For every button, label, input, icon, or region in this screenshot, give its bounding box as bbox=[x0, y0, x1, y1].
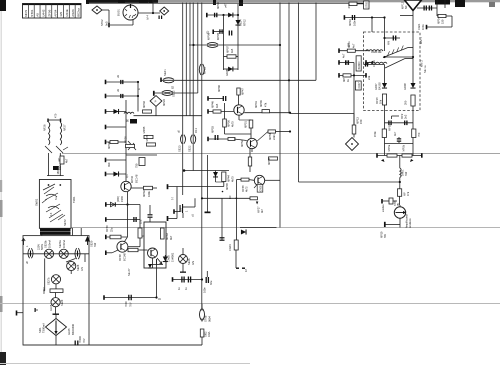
svg-text:MP44: MP44 bbox=[227, 175, 231, 182]
svg-text:SE29: SE29 bbox=[60, 299, 64, 306]
svg-text:1k5: 1k5 bbox=[215, 103, 219, 108]
svg-text:1k5: 1k5 bbox=[230, 48, 234, 53]
svg-text:u9: u9 bbox=[116, 89, 120, 92]
svg-text:NF/S: NF/S bbox=[24, 10, 28, 17]
svg-text:SE30b: SE30b bbox=[44, 240, 48, 248]
svg-text:70000: 70000 bbox=[78, 335, 82, 343]
svg-text:CA04: CA04 bbox=[228, 244, 232, 251]
svg-text:100n: 100n bbox=[353, 20, 357, 26]
svg-text:4k75: 4k75 bbox=[231, 176, 235, 182]
svg-text:GR06: GR06 bbox=[225, 69, 229, 76]
svg-text:SE 1a: SE 1a bbox=[423, 65, 427, 73]
svg-text:SW: SW bbox=[404, 171, 408, 176]
svg-text:0.8A: 0.8A bbox=[207, 331, 211, 337]
svg-text:ZF09: ZF09 bbox=[47, 9, 51, 16]
svg-text:180061: 180061 bbox=[56, 165, 60, 174]
svg-text:RT02: RT02 bbox=[243, 19, 247, 26]
svg-text:1x5: 1x5 bbox=[59, 12, 63, 17]
svg-text:u9: u9 bbox=[116, 75, 120, 78]
svg-text:MP38: MP38 bbox=[118, 254, 122, 261]
svg-text:NETZ: NETZ bbox=[63, 219, 67, 226]
svg-text:MP54: MP54 bbox=[268, 133, 272, 140]
svg-text:MP15: MP15 bbox=[375, 97, 379, 104]
svg-text:(2): (2) bbox=[206, 31, 210, 34]
svg-text:ST05: ST05 bbox=[395, 200, 397, 206]
svg-text:MP13: MP13 bbox=[356, 117, 360, 124]
svg-text:NF26: NF26 bbox=[43, 124, 47, 131]
svg-text:70V: 70V bbox=[82, 338, 86, 343]
svg-text:BA102: BA102 bbox=[378, 82, 382, 90]
svg-text:470: 470 bbox=[347, 4, 351, 9]
svg-text:MP14: MP14 bbox=[437, 17, 441, 24]
svg-text:49: 49 bbox=[158, 297, 161, 301]
svg-text:U44E: U44E bbox=[65, 9, 69, 17]
svg-text:390: 390 bbox=[107, 162, 111, 167]
svg-text:MP39: MP39 bbox=[105, 225, 109, 232]
svg-text:GN02: GN02 bbox=[261, 185, 263, 192]
svg-text:SE30a: SE30a bbox=[58, 240, 62, 248]
svg-text:BC148: BC148 bbox=[123, 253, 127, 261]
svg-text:750: 750 bbox=[417, 132, 421, 137]
svg-text:1n: 1n bbox=[184, 287, 188, 290]
svg-text:470: 470 bbox=[54, 113, 58, 118]
svg-text:2n2: 2n2 bbox=[404, 114, 408, 119]
svg-text:ST02: ST02 bbox=[100, 19, 104, 26]
svg-text:DR01: DR01 bbox=[401, 169, 405, 176]
svg-text:MP2: MP2 bbox=[400, 113, 404, 119]
svg-text:SI02: SI02 bbox=[204, 331, 208, 337]
svg-text:T500mA: T500mA bbox=[42, 323, 46, 333]
svg-text:4k7: 4k7 bbox=[260, 208, 264, 213]
svg-text:MP: MP bbox=[347, 43, 351, 47]
svg-text:R: R bbox=[142, 235, 146, 237]
svg-text:MP29: MP29 bbox=[124, 136, 128, 143]
svg-text:MP23: MP23 bbox=[162, 99, 166, 106]
svg-text:SI01: SI01 bbox=[38, 327, 42, 333]
svg-text:MP04: MP04 bbox=[216, 2, 220, 9]
svg-text:BC: BC bbox=[228, 195, 232, 199]
svg-text:13: 13 bbox=[244, 269, 248, 272]
svg-text:GL05: GL05 bbox=[49, 304, 53, 311]
svg-text:L: L bbox=[25, 245, 29, 247]
svg-text:SW: SW bbox=[93, 242, 97, 247]
svg-text:22u: 22u bbox=[139, 219, 143, 224]
svg-text:22k1: 22k1 bbox=[272, 134, 276, 140]
svg-text:MP49: MP49 bbox=[259, 100, 263, 107]
svg-text:100k: 100k bbox=[147, 191, 151, 197]
svg-text:1n: 1n bbox=[177, 287, 181, 290]
svg-text:32u: 32u bbox=[110, 227, 114, 232]
svg-text:MP: MP bbox=[403, 192, 407, 196]
svg-text:(-): (-) bbox=[170, 197, 174, 200]
svg-text:u47: u47 bbox=[224, 3, 228, 8]
svg-text:MP46: MP46 bbox=[211, 101, 215, 108]
svg-text:0-6: 0-6 bbox=[51, 212, 53, 216]
svg-text:100mA: 100mA bbox=[62, 240, 66, 248]
svg-text:(160): (160) bbox=[116, 196, 120, 202]
svg-text:MP35: MP35 bbox=[241, 185, 245, 192]
svg-text:Endstufe: Endstufe bbox=[409, 218, 412, 228]
svg-text:1: 1 bbox=[185, 210, 189, 212]
svg-text:150: 150 bbox=[359, 119, 363, 124]
svg-text:SW01: SW01 bbox=[35, 198, 39, 206]
svg-text:U442: U442 bbox=[42, 9, 46, 17]
svg-text:MP50: MP50 bbox=[227, 120, 231, 127]
svg-text:A0: A0 bbox=[36, 13, 40, 17]
svg-text:GR08: GR08 bbox=[403, 83, 407, 90]
svg-text:SE27b: SE27b bbox=[47, 277, 51, 285]
svg-text:1k: 1k bbox=[346, 79, 350, 82]
svg-text:47k: 47k bbox=[264, 102, 268, 107]
svg-text:4k75: 4k75 bbox=[245, 186, 249, 192]
svg-text:1N60: 1N60 bbox=[120, 195, 124, 202]
svg-text:MP: MP bbox=[342, 78, 346, 82]
svg-text:4n7: 4n7 bbox=[393, 131, 397, 136]
svg-text:MP42: MP42 bbox=[142, 190, 146, 197]
svg-text:SE22: SE22 bbox=[188, 145, 192, 152]
svg-text:MP34: MP34 bbox=[107, 142, 111, 149]
svg-text:ST01: ST01 bbox=[30, 9, 34, 17]
svg-text:GN: GN bbox=[191, 261, 195, 265]
svg-text:CA07: CA07 bbox=[358, 82, 361, 89]
svg-text:0604: 0604 bbox=[208, 316, 212, 322]
svg-text:ST05: ST05 bbox=[365, 1, 369, 8]
svg-text:M 4: M 4 bbox=[146, 14, 150, 19]
svg-text:220V: 220V bbox=[37, 244, 41, 250]
svg-text:MP30: MP30 bbox=[145, 134, 149, 141]
svg-text:SE28: SE28 bbox=[76, 264, 80, 271]
svg-text:BC148: BC148 bbox=[135, 174, 139, 183]
svg-text:MP47: MP47 bbox=[241, 88, 245, 95]
svg-text:u1: u1 bbox=[191, 214, 195, 217]
svg-text:70V: 70V bbox=[129, 302, 133, 307]
svg-text:390: 390 bbox=[404, 100, 408, 105]
svg-text:AF04: AF04 bbox=[53, 9, 57, 17]
svg-text:MP16: MP16 bbox=[267, 158, 271, 165]
svg-text:100mA: 100mA bbox=[48, 240, 52, 248]
svg-text:94.1: 94.1 bbox=[194, 127, 198, 133]
svg-text:1N4001: 1N4001 bbox=[171, 252, 175, 262]
svg-text:SE22: SE22 bbox=[172, 90, 176, 97]
svg-text:150k: 150k bbox=[373, 131, 377, 137]
svg-text:GN: GN bbox=[80, 267, 84, 271]
svg-text:MP51: MP51 bbox=[244, 121, 248, 128]
svg-text:MP12: MP12 bbox=[401, 1, 405, 9]
svg-text:u5: u5 bbox=[177, 130, 181, 133]
svg-text:u47: u47 bbox=[57, 157, 61, 162]
svg-text:MP48: MP48 bbox=[217, 85, 221, 92]
svg-text:SW: SW bbox=[384, 233, 387, 238]
svg-text:4k75: 4k75 bbox=[231, 121, 235, 127]
svg-text:MP5b: MP5b bbox=[402, 144, 406, 151]
svg-text:SE 27: SE 27 bbox=[127, 268, 131, 276]
svg-text:10k: 10k bbox=[379, 99, 383, 104]
svg-text:MP03: MP03 bbox=[388, 124, 392, 131]
svg-text:0,1: 0,1 bbox=[125, 174, 129, 178]
svg-text:MM: MM bbox=[387, 41, 391, 45]
svg-text:MP31: MP31 bbox=[254, 101, 258, 108]
svg-text:BE2xx: BE2xx bbox=[77, 8, 81, 17]
svg-text:P: P bbox=[155, 100, 157, 104]
svg-text:50Hz: 50Hz bbox=[40, 243, 44, 250]
svg-text:AS26: AS26 bbox=[71, 9, 75, 17]
svg-text:NF27: NF27 bbox=[63, 124, 67, 131]
svg-text:MP45: MP45 bbox=[225, 183, 229, 190]
svg-text:MP52: MP52 bbox=[240, 140, 244, 147]
svg-text:750: 750 bbox=[135, 163, 139, 168]
svg-text:SE21: SE21 bbox=[163, 69, 167, 76]
svg-text:BANDF: BANDF bbox=[358, 61, 361, 70]
svg-text:MP40: MP40 bbox=[130, 175, 134, 183]
svg-text:sondes: sondes bbox=[383, 204, 385, 212]
svg-text:MP5a: MP5a bbox=[387, 144, 391, 151]
svg-text:SE26: SE26 bbox=[187, 258, 191, 265]
svg-text:a: a bbox=[138, 88, 141, 90]
svg-text:MP10: MP10 bbox=[348, 19, 352, 26]
svg-text:4u7: 4u7 bbox=[342, 53, 346, 58]
svg-text:GR07: GR07 bbox=[374, 83, 378, 90]
svg-text:4k7: 4k7 bbox=[169, 235, 173, 240]
svg-text:BU01: BU01 bbox=[117, 9, 121, 16]
svg-text:MP53: MP53 bbox=[211, 126, 215, 133]
svg-text:100n: 100n bbox=[421, 24, 425, 30]
svg-text:TR01: TR01 bbox=[72, 196, 76, 203]
svg-text:SE23: SE23 bbox=[178, 145, 182, 152]
svg-text:32u: 32u bbox=[209, 280, 213, 285]
svg-text:100n: 100n bbox=[203, 287, 207, 293]
svg-text:MP35: MP35 bbox=[142, 126, 146, 133]
svg-text:47k: 47k bbox=[406, 191, 410, 196]
svg-text:GL05: GL05 bbox=[67, 328, 71, 335]
svg-text:B30C800: B30C800 bbox=[71, 323, 75, 335]
svg-text:7000: 7000 bbox=[124, 301, 128, 307]
svg-text:MP22: MP22 bbox=[203, 66, 207, 74]
svg-text:CA01: CA01 bbox=[417, 23, 421, 30]
svg-text:ST08: ST08 bbox=[204, 315, 208, 322]
svg-text:MP43: MP43 bbox=[165, 233, 169, 240]
svg-text:CA08: CA08 bbox=[167, 255, 171, 262]
svg-text:0n5: 0n5 bbox=[105, 21, 109, 26]
svg-text:MP07: MP07 bbox=[226, 46, 230, 53]
svg-text:82: 82 bbox=[171, 85, 175, 89]
svg-text:4k7: 4k7 bbox=[65, 158, 69, 163]
svg-text:NF: NF bbox=[404, 5, 408, 9]
svg-text:22k: 22k bbox=[367, 75, 371, 80]
svg-text:4u7: 4u7 bbox=[352, 43, 356, 48]
svg-text:MP37: MP37 bbox=[257, 206, 261, 213]
svg-text:150: 150 bbox=[441, 19, 445, 24]
svg-text:MP33: MP33 bbox=[142, 101, 146, 108]
svg-text:u5: u5 bbox=[25, 261, 29, 264]
